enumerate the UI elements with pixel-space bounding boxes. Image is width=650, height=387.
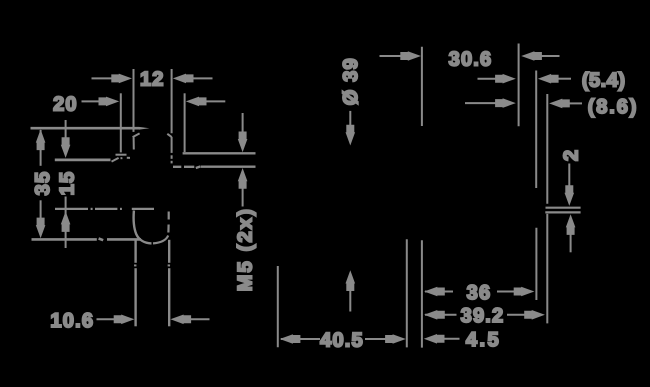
dim (5.4) right arrow (538, 74, 571, 84)
extension line 40.5-right (406, 239, 408, 347)
left view: left leg edge fragments (112, 155, 131, 162)
dim 12 left arrow (92, 74, 133, 84)
dim 20 left arrow (82, 97, 120, 107)
extension line (5.4)-right (535, 71, 537, 189)
dim (5.4) left arrow (478, 74, 516, 84)
left view: U-slot left curve (134, 211, 152, 244)
dim 36 right arrow (497, 287, 534, 297)
svg-text:12: 12 (140, 69, 165, 91)
left view: part top edge (31, 127, 140, 130)
svg-text:(5.4): (5.4) (582, 69, 626, 91)
dim diameter 39 leader down arrow (346, 111, 356, 146)
left view: top edge taper end (139, 127, 150, 130)
dim 10.6 right arrow (170, 315, 209, 325)
dim 12 right arrow (173, 74, 213, 84)
dim 30.6 right arrow (521, 51, 559, 61)
svg-text:10.6: 10.6 (50, 310, 94, 332)
svg-text:M5 (2x): M5 (2x) (234, 207, 256, 291)
left view: right leg bottom edge (173, 166, 256, 168)
dim 4.5 right arrow (424, 334, 460, 344)
dim (8.6) left arrow (465, 98, 516, 108)
extension line 20-left (120, 93, 122, 152)
dim 20 right arrow (186, 97, 226, 107)
svg-text:15: 15 (56, 171, 78, 196)
left view: right leg top edge (183, 152, 256, 154)
svg-text:4.5: 4.5 (466, 329, 501, 351)
svg-text:30.6: 30.6 (449, 48, 493, 70)
extension line 20-right (184, 93, 186, 152)
extension line 12-left (133, 69, 135, 150)
svg-text:39.2: 39.2 (461, 305, 505, 327)
dim 10.6 left arrow (97, 315, 135, 325)
svg-text:Ø 39: Ø 39 (340, 57, 362, 105)
left view: lower slot wall left (134, 241, 137, 327)
dim 2 upper arrow (565, 164, 575, 206)
left view: U-slot right dashed side (153, 212, 169, 244)
extension line 30.6-left lower segment (421, 240, 423, 347)
dim 15 line with arrows (61, 120, 71, 248)
extension line 40.5-left (277, 266, 279, 347)
dim diameter 39 up arrow (346, 270, 356, 311)
part step upper edge at dim 2 (546, 207, 581, 209)
left view: lower slot wall right (168, 240, 171, 326)
extension line 36-right (535, 228, 537, 300)
svg-text:(8.6): (8.6) (588, 96, 639, 118)
svg-text:2: 2 (561, 149, 583, 161)
left view: small corner fragment near 12-right line (167, 134, 171, 137)
left view: small corner fragment near 12-left line (133, 133, 140, 137)
left view: left leg top edge (55, 158, 111, 161)
part step lower edge at dim 2 (545, 211, 580, 213)
left view: dash-dot edge line (55, 208, 154, 210)
svg-text:40.5: 40.5 (320, 329, 364, 351)
dim 30.6 left arrow (380, 51, 422, 61)
dim 40.5 right arrow (365, 334, 406, 344)
dim 2 lower arrow (566, 214, 576, 252)
dim 35 line with arrows (36, 129, 46, 238)
dim (8.6) right arrow (549, 99, 582, 109)
dim 36 left arrow (424, 287, 453, 297)
dim M5 (2x) upper arrow (238, 113, 248, 152)
dim 39.2 left arrow (424, 310, 456, 320)
svg-text:35: 35 (32, 171, 54, 196)
extension line 12-right (171, 69, 173, 163)
extension line (8.6)-right lower segment (546, 214, 548, 324)
svg-text:20: 20 (53, 93, 78, 115)
svg-text:36: 36 (467, 282, 492, 304)
dim 39.2 right arrow (507, 310, 545, 320)
extension line 30.6-right (518, 44, 520, 127)
left view: bottom edge (32, 239, 142, 241)
dim 40.5 left arrow (280, 334, 320, 344)
extension line 30.6-left / 39.2-left upper segment (421, 47, 423, 126)
dim M5 (2x) lower arrow (238, 168, 248, 207)
extension line (8.6)-right upper segment (546, 94, 548, 204)
